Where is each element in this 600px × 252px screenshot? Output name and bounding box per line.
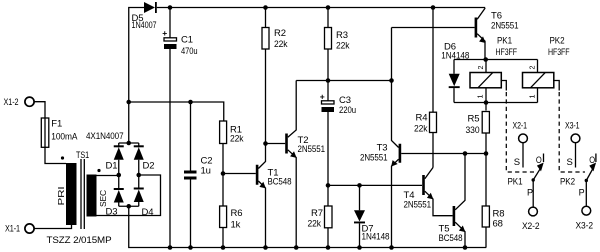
wire X1-2 to fuse bbox=[34, 102, 45, 118]
resistor R7 bbox=[327, 185, 329, 206]
svg-text:68: 68 bbox=[493, 219, 503, 230]
svg-text:1u: 1u bbox=[201, 166, 211, 177]
svg-text:D4: D4 bbox=[142, 207, 154, 218]
svg-text:X1-1: X1-1 bbox=[5, 224, 20, 235]
svg-text:X3-2: X3-2 bbox=[576, 221, 594, 232]
svg-text:TS1: TS1 bbox=[76, 150, 89, 161]
diode D3 bbox=[118, 175, 120, 190]
node T3 collector tap bbox=[389, 78, 394, 83]
svg-text:4X1N4007: 4X1N4007 bbox=[86, 131, 124, 142]
node C2 bottom bbox=[188, 245, 193, 250]
switch lever PK1 bbox=[533, 168, 541, 180]
svg-text:1k: 1k bbox=[231, 219, 241, 230]
wire bridge top bar bbox=[119, 142, 139, 144]
node relay return R5 bbox=[484, 100, 489, 105]
node R4 top bbox=[431, 5, 436, 10]
diode D1 bbox=[118, 143, 120, 147]
svg-text:22k: 22k bbox=[414, 124, 428, 135]
capacitor C3 bbox=[327, 81, 329, 101]
svg-text:S: S bbox=[567, 157, 573, 168]
relay PK1 coil bbox=[485, 60, 487, 73]
svg-text:PK2: PK2 bbox=[560, 177, 575, 188]
transistor T5 bbox=[453, 206, 456, 226]
resistor R4 bbox=[432, 8, 434, 113]
contact S PK1 bbox=[522, 143, 524, 168]
node R3 C3 bbox=[326, 78, 331, 83]
svg-text:C1: C1 bbox=[181, 35, 193, 46]
wire top rail bbox=[157, 7, 485, 9]
wire raw dc rail bbox=[129, 102, 224, 121]
terminal X2-2 bbox=[529, 207, 538, 216]
svg-text:P: P bbox=[579, 187, 585, 197]
svg-text:100mA: 100mA bbox=[51, 132, 78, 143]
transistor T1 bbox=[256, 165, 259, 185]
transistor T4 bbox=[422, 175, 425, 195]
node D7 bottom bbox=[357, 245, 362, 250]
diode D5 bbox=[144, 2, 155, 13]
node T5 collector tap bbox=[463, 151, 468, 156]
svg-text:1: 1 bbox=[528, 95, 537, 99]
secondary winding SEC bbox=[87, 175, 97, 217]
terminal X3-2 bbox=[582, 206, 591, 215]
transistor T3 bbox=[399, 144, 402, 163]
node R3 top bbox=[326, 5, 331, 10]
svg-text:SEC: SEC bbox=[98, 190, 108, 207]
wire base rail T4 bbox=[328, 184, 422, 186]
node T2 emitter ground bbox=[294, 245, 299, 250]
svg-text:220u: 220u bbox=[339, 105, 356, 116]
wire relay supply rail bbox=[454, 59, 538, 61]
resistor R5 bbox=[485, 103, 487, 111]
wire T2 collector node rail bbox=[296, 80, 391, 82]
resistor R3 bbox=[327, 8, 329, 28]
switch lever PK2 bbox=[586, 168, 593, 181]
svg-text:1: 1 bbox=[476, 95, 485, 99]
svg-text:F1: F1 bbox=[51, 119, 62, 130]
svg-text:R7: R7 bbox=[311, 208, 323, 219]
svg-text:D1: D1 bbox=[106, 161, 118, 172]
svg-text:330: 330 bbox=[466, 125, 480, 136]
wire relay return rail bbox=[454, 102, 538, 104]
svg-text:R2: R2 bbox=[274, 28, 286, 39]
wire T6 base bbox=[392, 27, 475, 29]
svg-text:S: S bbox=[514, 157, 520, 168]
wire bridge bottom to ground rail bbox=[129, 206, 487, 247]
wire T3 base to R4 T4 bbox=[401, 153, 486, 155]
wire fuse to PRI bbox=[45, 147, 66, 163]
node T6 emitter relay bbox=[483, 57, 488, 62]
svg-text:470u: 470u bbox=[181, 46, 198, 57]
svg-text:22k: 22k bbox=[230, 134, 244, 145]
diode D2 bbox=[138, 143, 140, 147]
svg-text:PK2: PK2 bbox=[550, 36, 565, 47]
svg-text:P: P bbox=[527, 187, 533, 197]
node D7 top bbox=[357, 183, 362, 188]
svg-text:D3: D3 bbox=[106, 207, 118, 218]
node T5 emitter ground bbox=[463, 245, 468, 250]
node R2 top bbox=[263, 5, 268, 10]
svg-text:PRI: PRI bbox=[56, 187, 66, 206]
svg-text:PK1: PK1 bbox=[497, 36, 512, 47]
wire SEC bottom loop to bridge right node bbox=[97, 175, 161, 216]
node C2 tap bbox=[188, 100, 193, 105]
relay PK1 armature link bbox=[501, 81, 507, 91]
svg-text:HF3FF: HF3FF bbox=[496, 47, 518, 58]
phase dot PRI bbox=[61, 156, 64, 159]
diode D6 bbox=[453, 60, 455, 74]
wire SEC top to bridge bbox=[97, 175, 119, 177]
svg-text:1N4148: 1N4148 bbox=[362, 232, 390, 243]
svg-text:R6: R6 bbox=[231, 208, 243, 219]
transistor T2 bbox=[285, 134, 288, 154]
node R6 bottom bbox=[221, 245, 226, 250]
node R5 R8 tap bbox=[484, 151, 489, 156]
wire X1-1 to PRI bbox=[34, 225, 71, 229]
wire T2 base bbox=[266, 143, 286, 145]
transistor T6 bbox=[475, 18, 478, 38]
primary winding PRI bbox=[66, 163, 77, 225]
svg-text:TSZZ 2/015MP: TSZZ 2/015MP bbox=[47, 235, 112, 246]
svg-text:PK1: PK1 bbox=[508, 177, 523, 188]
svg-text:2: 2 bbox=[528, 66, 537, 70]
wire T1 base bbox=[223, 173, 256, 175]
svg-text:22k: 22k bbox=[308, 219, 322, 230]
node T3 emitter ground bbox=[389, 245, 394, 250]
svg-text:2N5551: 2N5551 bbox=[404, 200, 432, 211]
svg-text:2N5551: 2N5551 bbox=[298, 144, 326, 155]
svg-text:X3-1: X3-1 bbox=[565, 121, 580, 132]
phase dot SEC bbox=[97, 169, 100, 172]
node bridge AC left bbox=[116, 173, 121, 178]
svg-text:BC548: BC548 bbox=[439, 233, 463, 244]
node T1 emitter ground bbox=[263, 245, 268, 250]
transformer core bbox=[80, 159, 82, 229]
terminal X1-2 bbox=[25, 97, 34, 106]
wire left rail bridge to top bbox=[129, 8, 144, 144]
node C1 bottom bbox=[168, 245, 173, 250]
capacitor C1 bbox=[169, 8, 171, 38]
resistor R6 bbox=[222, 174, 224, 207]
terminal X1-1 bbox=[25, 224, 34, 233]
node bridge AC right bbox=[136, 173, 141, 178]
diode D7 bbox=[359, 185, 361, 210]
contact S PK2 bbox=[575, 143, 577, 168]
node C1 top bbox=[168, 5, 173, 10]
svg-text:D2: D2 bbox=[143, 161, 155, 172]
svg-text:R4: R4 bbox=[416, 113, 428, 124]
svg-text:2N5551: 2N5551 bbox=[360, 153, 388, 164]
node bridge bottom bbox=[126, 204, 131, 209]
wire bridge bottom bar bbox=[119, 205, 139, 207]
capacitor C2 bbox=[190, 102, 192, 171]
svg-text:2: 2 bbox=[476, 66, 485, 70]
node T2 base bbox=[263, 141, 268, 146]
svg-text:HF3FF: HF3FF bbox=[548, 47, 570, 58]
svg-text:+: + bbox=[162, 28, 167, 38]
diode D4 bbox=[138, 175, 140, 190]
resistor R2 bbox=[265, 8, 267, 28]
svg-text:+: + bbox=[320, 92, 325, 102]
node raw rail left bbox=[126, 100, 131, 105]
svg-text:2N5551: 2N5551 bbox=[491, 21, 519, 32]
relay PK2 armature link bbox=[553, 81, 559, 91]
svg-text:22k: 22k bbox=[336, 41, 350, 52]
svg-text:X2-2: X2-2 bbox=[522, 221, 540, 232]
relay PK2 coil bbox=[537, 60, 539, 73]
svg-text:X2-1: X2-1 bbox=[513, 121, 528, 132]
fuse F1 bbox=[41, 118, 49, 147]
svg-text:X1-2: X1-2 bbox=[4, 97, 19, 108]
svg-text:R5: R5 bbox=[468, 114, 480, 125]
svg-text:1N4007: 1N4007 bbox=[132, 20, 157, 31]
svg-text:22k: 22k bbox=[274, 39, 288, 50]
node R1 R6 T1 bbox=[221, 171, 226, 176]
node bridge top bbox=[126, 141, 131, 146]
svg-text:R3: R3 bbox=[336, 30, 348, 41]
node R7 bottom bbox=[326, 245, 331, 250]
resistor R1 bbox=[220, 121, 227, 144]
resistor R8 bbox=[485, 154, 487, 207]
svg-text:BC548: BC548 bbox=[268, 177, 292, 188]
node C3 bottom R7 bbox=[326, 183, 331, 188]
